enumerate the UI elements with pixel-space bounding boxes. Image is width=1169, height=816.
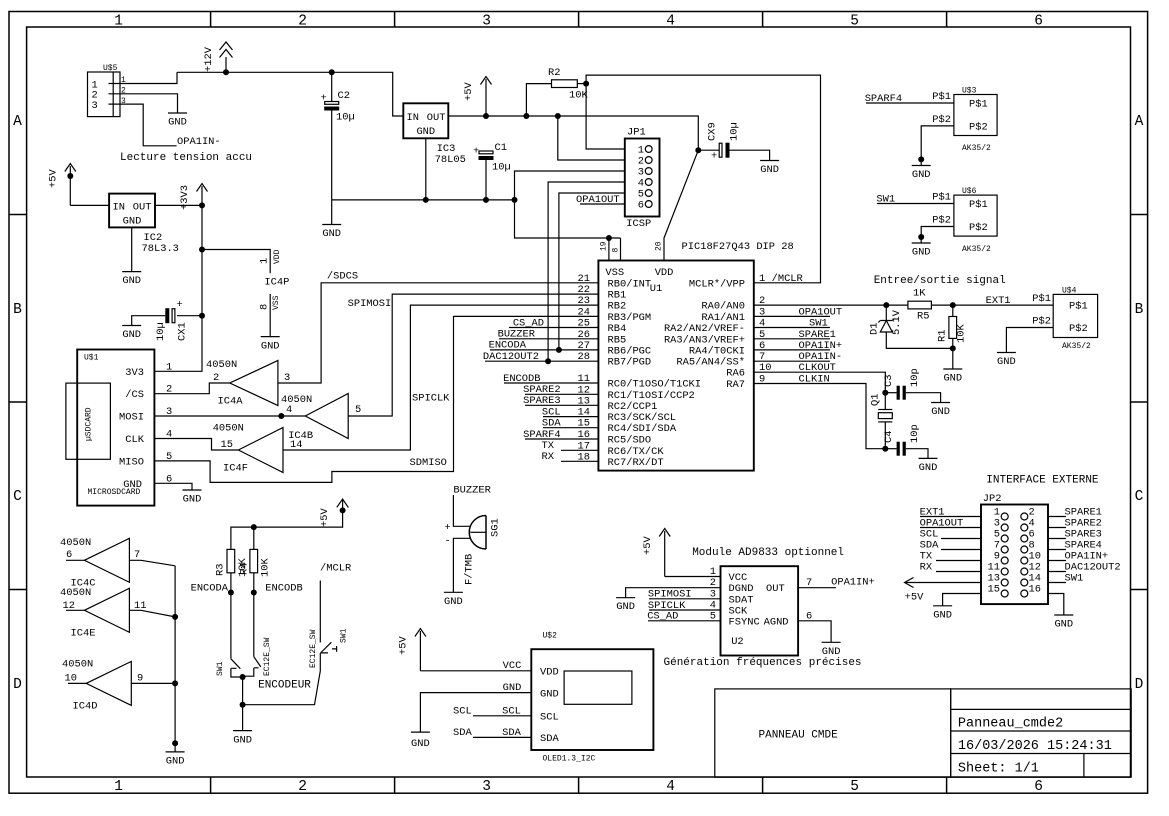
svg-text:ENCODB: ENCODB	[265, 583, 302, 595]
svg-text:Génération fréquences précises: Génération fréquences précises	[664, 657, 862, 669]
wire pin14	[543, 416, 598, 418]
svg-text:GND: GND	[503, 682, 522, 694]
wire pin16	[525, 438, 598, 440]
svg-text:R4: R4	[239, 563, 251, 575]
junction encoder common	[240, 674, 246, 680]
svg-text:+5V: +5V	[642, 536, 654, 555]
svg-text:GND: GND	[444, 596, 463, 608]
svg-text:EC12E_SW: EC12E_SW	[263, 637, 272, 676]
svg-text:1K: 1K	[913, 288, 926, 300]
wire U$5 pin2 to GND	[120, 94, 178, 113]
junction CX9 node	[695, 147, 701, 153]
svg-text:C: C	[13, 489, 22, 505]
svg-text:AK35/2: AK35/2	[962, 245, 991, 254]
svg-text:OLED1.3_I2C: OLED1.3_I2C	[543, 755, 596, 764]
wire SG1 - to ground	[453, 538, 470, 592]
ground under IC2	[122, 272, 141, 287]
svg-text:RB6/PGC: RB6/PGC	[608, 345, 652, 357]
svg-text:EC12E_SW: EC12E_SW	[309, 629, 318, 668]
svg-text:5: 5	[355, 404, 361, 416]
resistor R2	[526, 67, 588, 116]
power symbol +5V AD9833	[642, 529, 670, 577]
svg-text:IC4D: IC4D	[73, 701, 98, 713]
svg-text:R5: R5	[917, 311, 929, 323]
wire pin28	[485, 360, 598, 362]
wire pin12	[525, 393, 598, 395]
wire U$6 P$2 to ground	[921, 227, 954, 244]
junction crystal bottom	[882, 446, 888, 452]
svg-text:VDD: VDD	[655, 267, 674, 279]
wire unused inputs bus	[174, 566, 176, 752]
buzzer SG1	[445, 516, 502, 586]
svg-text:3: 3	[92, 100, 98, 112]
junction pin27 PGC	[556, 347, 562, 353]
junction +5V at R2 branch	[523, 113, 529, 119]
svg-text:SPICLK: SPICLK	[412, 393, 450, 405]
buffer IC4B	[281, 394, 361, 443]
svg-text:RC4/SDI/SDA: RC4/SDI/SDA	[608, 423, 677, 435]
wire CLKOUT pin10	[754, 372, 886, 393]
svg-text:SDA: SDA	[453, 727, 472, 739]
wire pin7	[754, 360, 830, 362]
wire BUZZER to SG1 +	[453, 495, 469, 526]
junction bus IC4E	[172, 614, 178, 620]
svg-text:OUT: OUT	[766, 583, 785, 595]
svg-text:5: 5	[166, 451, 172, 463]
svg-text:VSS: VSS	[605, 267, 624, 279]
svg-text:VCC: VCC	[729, 572, 748, 584]
wire common down	[242, 677, 244, 731]
svg-text:10µ: 10µ	[492, 162, 511, 174]
wire +12V rail	[177, 72, 403, 116]
wire JP1 pin4 down to PGD	[548, 182, 625, 361]
pin 19 VSS stub	[600, 238, 621, 261]
svg-text:SW1: SW1	[340, 628, 349, 643]
wire R4 top	[253, 527, 255, 549]
power symbol +5V above C1	[463, 77, 492, 117]
svg-text:B: B	[13, 302, 22, 318]
svg-text:10p: 10p	[909, 368, 921, 387]
wire JP2 pin2	[1048, 516, 1066, 518]
svg-text:GND: GND	[122, 329, 141, 341]
border row ticks left	[9, 215, 27, 590]
svg-text:RC2/CCP1: RC2/CCP1	[608, 401, 658, 413]
svg-text:4050N: 4050N	[62, 659, 93, 671]
svg-text:VDD: VDD	[273, 249, 282, 264]
svg-text:SDA: SDA	[540, 733, 559, 745]
junction bus lower	[172, 740, 178, 746]
svg-text:RC5/SDO: RC5/SDO	[608, 435, 652, 447]
wire +5V to U2 VCC	[665, 576, 721, 578]
border column ticks top	[211, 12, 947, 28]
border row ticks right	[1131, 215, 1148, 590]
svg-text:SCL: SCL	[453, 705, 472, 717]
wire U2 DGND to ground	[626, 588, 721, 598]
wire U$3 P$2 to ground	[921, 126, 954, 166]
svg-text:+5V: +5V	[319, 508, 331, 527]
svg-text:8: 8	[612, 248, 621, 253]
svg-text:GND: GND	[912, 247, 931, 259]
svg-text:+: +	[321, 93, 327, 105]
svg-text:INTERFACE EXTERNE: INTERFACE EXTERNE	[986, 475, 1099, 487]
svg-text:SDAT: SDAT	[729, 594, 754, 606]
wire JP1 pin6	[580, 203, 625, 205]
resistor R3	[215, 549, 251, 577]
svg-text:VSS: VSS	[272, 295, 281, 310]
buffer IC4A	[206, 359, 290, 408]
svg-text:GND: GND	[122, 275, 141, 287]
svg-text:JP2: JP2	[983, 493, 1002, 505]
wire to IC4P VDD	[202, 250, 270, 274]
switch SW1 encoder A	[216, 637, 272, 677]
buffer IC4F	[213, 423, 303, 475]
junction D1/R1 bottom	[950, 345, 956, 351]
svg-text:/MCLR: /MCLR	[772, 273, 803, 285]
comment box PANNEAU CMDE	[715, 689, 951, 777]
svg-text:VDD: VDD	[540, 667, 559, 679]
wire pin11	[504, 382, 598, 384]
pin numbers left of U1	[578, 273, 590, 464]
IC U1 PIC18F27Q43	[598, 241, 793, 471]
svg-text:MCLR*/VPP: MCLR*/VPP	[689, 278, 745, 290]
svg-text:Panneau_cmde2: Panneau_cmde2	[958, 717, 1063, 732]
ground under CX1	[122, 326, 141, 342]
svg-text:GND: GND	[912, 169, 931, 181]
ground at U2 AGND	[822, 642, 841, 658]
svg-text:AK35/2: AK35/2	[1062, 342, 1091, 351]
wire /MCLR to push button	[319, 581, 321, 643]
svg-text:GND: GND	[933, 609, 952, 621]
wire JP2 pin11	[936, 571, 981, 573]
wire SDA	[473, 736, 531, 738]
svg-text:GND: GND	[822, 646, 841, 658]
wire CLK to IC4F out	[164, 439, 239, 451]
push button SW1 /MCLR	[309, 628, 349, 668]
ground under SG1	[444, 592, 463, 608]
ground under C2 rail	[322, 200, 341, 240]
svg-text:U$1: U$1	[84, 354, 99, 363]
wire SCL	[473, 715, 531, 717]
svg-text:RA2/AN2/VREF-: RA2/AN2/VREF-	[664, 323, 745, 335]
svg-text:GND: GND	[760, 164, 779, 176]
svg-text:RX: RX	[542, 451, 555, 463]
power symbol +5V OLED	[398, 629, 426, 671]
regulator IC3 78L05	[403, 103, 466, 166]
wire U$4 P$2 to ground	[1006, 328, 1053, 353]
svg-text:VCC: VCC	[503, 660, 522, 672]
svg-text:3: 3	[482, 14, 491, 30]
svg-text:P$1: P$1	[969, 199, 988, 211]
ground under U$3	[912, 166, 931, 182]
svg-text:4: 4	[666, 779, 675, 795]
svg-text:P$1: P$1	[1069, 301, 1088, 313]
ground under U$1	[183, 490, 202, 506]
module U2 AD9833	[721, 566, 799, 655]
capacitor C1	[473, 142, 511, 200]
capacitor CX9	[698, 122, 769, 162]
svg-text:U$5: U$5	[103, 64, 118, 73]
title block	[951, 689, 1131, 777]
svg-text:RB0/INT: RB0/INT	[608, 278, 652, 290]
svg-text:P$2: P$2	[1032, 316, 1051, 328]
svg-text:ENCODA: ENCODA	[191, 583, 229, 595]
svg-text:GND: GND	[997, 356, 1016, 368]
wire pin13	[525, 404, 598, 406]
junction +3V3	[199, 202, 205, 208]
ground under U$4	[997, 353, 1016, 369]
svg-text:C: C	[1135, 489, 1144, 505]
svg-text:PANNEAU CMDE: PANNEAU CMDE	[759, 730, 839, 742]
svg-text:GND: GND	[943, 373, 962, 385]
svg-text:6: 6	[638, 200, 644, 212]
svg-text:U$3: U$3	[962, 87, 977, 96]
svg-text:EXT1: EXT1	[986, 295, 1011, 307]
wire SCK	[649, 609, 721, 611]
svg-text:P$2: P$2	[969, 222, 988, 234]
junction R2 /MCLR node	[583, 81, 589, 87]
wire U$1 GND pin6	[164, 483, 193, 490]
svg-text:10: 10	[65, 673, 77, 685]
svg-text:RC7/RX/DT: RC7/RX/DT	[608, 457, 664, 469]
wire JP2 pin12	[1048, 571, 1066, 573]
wire pin17	[561, 449, 598, 451]
svg-text:+12V: +12V	[203, 46, 215, 72]
wire pin25	[509, 327, 598, 329]
svg-text:SCL: SCL	[502, 705, 521, 717]
wire R4 bottom to switch	[253, 573, 255, 657]
svg-text:GND: GND	[123, 216, 142, 228]
svg-text:+: +	[445, 522, 451, 534]
svg-text:+: +	[177, 299, 183, 311]
svg-text:GND: GND	[183, 494, 202, 506]
wire pin15	[543, 427, 598, 429]
wire VDD pin20 diagonal	[664, 150, 698, 260]
junction +3V3 at CX1	[199, 313, 205, 319]
wire R2 node down to JP1 pin1	[586, 84, 625, 149]
svg-text:U$4: U$4	[1062, 287, 1077, 296]
svg-text:RA6: RA6	[726, 368, 745, 380]
svg-text:ENCODEUR: ENCODEUR	[258, 680, 311, 692]
wire pin18	[561, 460, 598, 462]
svg-text:AGND: AGND	[764, 616, 789, 628]
svg-text:D1: D1	[869, 323, 881, 335]
svg-text:2: 2	[213, 372, 219, 384]
svg-text:IN: IN	[113, 202, 125, 214]
svg-text:4050N: 4050N	[60, 537, 91, 549]
wire SPIMOSI pin22	[348, 294, 598, 416]
junction ENCODA	[228, 590, 234, 596]
svg-text:SG1: SG1	[490, 518, 502, 537]
svg-text:10K: 10K	[956, 324, 968, 343]
svg-text:IC4E: IC4E	[71, 628, 96, 640]
svg-text:GND: GND	[168, 117, 187, 129]
wire pin27	[490, 349, 598, 351]
svg-text:1: 1	[114, 779, 123, 795]
wire JP2 pin16 to ground	[1048, 594, 1064, 616]
svg-text:10µ: 10µ	[155, 322, 167, 341]
svg-text:P$1: P$1	[1032, 293, 1051, 305]
svg-text:GND: GND	[931, 406, 950, 418]
ground under C3	[931, 403, 950, 419]
wire IC2 GND to ground	[131, 227, 133, 271]
svg-text:CX1: CX1	[177, 322, 189, 341]
junction IC3 GND rail	[423, 197, 429, 203]
svg-text:RX: RX	[920, 562, 933, 574]
svg-text:SW1: SW1	[1065, 573, 1084, 585]
svg-text:/MCLR: /MCLR	[320, 562, 351, 574]
svg-text:5.1V: 5.1V	[891, 309, 903, 335]
svg-text:10µ: 10µ	[729, 122, 741, 141]
ground under bus	[166, 752, 185, 768]
svg-text:PIC18F27Q43 DIP 28: PIC18F27Q43 DIP 28	[682, 241, 794, 253]
wire FSYNC	[648, 620, 721, 622]
svg-text:RA0/AN0: RA0/AN0	[701, 301, 745, 313]
svg-text:GND: GND	[411, 738, 430, 750]
wire CLKIN pin9	[754, 384, 886, 449]
wire +5V to IC2 IN	[70, 204, 109, 206]
svg-text:RB2: RB2	[608, 301, 627, 313]
svg-text:B: B	[1135, 302, 1144, 318]
wire IC3 OUT +5V rail	[448, 116, 698, 150]
svg-text:IC4P: IC4P	[264, 277, 289, 289]
svg-text:1: 1	[710, 566, 716, 578]
buffer IC4D	[62, 659, 175, 713]
svg-text:ICSP: ICSP	[626, 218, 651, 230]
buffer IC4P power pins	[259, 249, 290, 336]
junction bus IC4D	[172, 680, 178, 686]
svg-text:+5V: +5V	[905, 592, 924, 604]
buffer IC4C	[60, 537, 175, 590]
power symbol +5V at IC2	[48, 164, 76, 206]
svg-text:P$2: P$2	[1069, 323, 1088, 335]
svg-text:R1: R1	[936, 330, 948, 342]
junction encoder gnd node	[240, 702, 246, 708]
svg-text:P$2: P$2	[932, 214, 951, 226]
wire R1 to ground	[952, 348, 954, 369]
capacitor C3	[883, 368, 941, 402]
svg-text:P$2: P$2	[932, 114, 951, 126]
wire JP2 pin1	[920, 516, 981, 518]
svg-text:14: 14	[290, 439, 302, 451]
svg-text:D: D	[1135, 677, 1144, 693]
svg-text:U2: U2	[731, 636, 743, 648]
wire JP2 pin10	[1048, 560, 1066, 562]
svg-text:1: 1	[114, 14, 123, 30]
svg-text:RB7/PGD: RB7/PGD	[608, 357, 652, 369]
ground at JP2 pin16	[1054, 615, 1073, 631]
svg-text:4050N: 4050N	[206, 359, 237, 371]
svg-text:JP1: JP1	[627, 127, 646, 139]
svg-text:P$1: P$1	[969, 99, 988, 111]
svg-text:19: 19	[600, 241, 609, 251]
capacitor C2	[321, 72, 355, 200]
resistor R5	[908, 288, 932, 323]
svg-text:5: 5	[850, 14, 859, 30]
svg-text:C3: C3	[883, 375, 895, 387]
junction +5V at JP1 pin2 branch	[555, 113, 561, 119]
svg-text:R3: R3	[215, 564, 227, 576]
wire JP1 pin3 to VSS	[515, 171, 625, 238]
wire IC3 GND to rail	[425, 138, 427, 200]
crystal Q1	[870, 393, 893, 449]
resistor R1	[936, 305, 967, 348]
pin numbers U2	[710, 566, 813, 622]
svg-text:/CS: /CS	[125, 389, 144, 401]
svg-text:AK35/2: AK35/2	[962, 144, 991, 153]
wire JP2 pin5	[941, 538, 981, 540]
svg-text:µSDCARD: µSDCARD	[85, 407, 94, 441]
svg-text:9: 9	[137, 673, 143, 685]
svg-text:CLKIN: CLKIN	[799, 374, 830, 386]
svg-text:4: 4	[666, 14, 675, 30]
junction C1 at rail	[483, 197, 489, 203]
svg-text:P$1: P$1	[932, 91, 951, 103]
buffer IC4E	[60, 587, 175, 640]
power symbol +5V encoder	[319, 499, 348, 528]
svg-text:10K: 10K	[260, 558, 272, 577]
switch encoder B	[243, 657, 261, 677]
svg-text:SDA: SDA	[502, 727, 521, 739]
junction +3V3 at IC4P branch	[199, 247, 205, 253]
wire pin26	[499, 338, 598, 340]
svg-text:C4: C4	[883, 431, 895, 443]
ground at JP2 pin15	[933, 606, 952, 622]
pin numbers right of U1	[759, 273, 771, 386]
svg-text:+3V3: +3V3	[179, 185, 191, 210]
svg-text:Lecture tension accu: Lecture tension accu	[120, 152, 252, 164]
svg-text:Sheet: 1/1: Sheet: 1/1	[958, 762, 1039, 777]
svg-text:IC4A: IC4A	[218, 396, 244, 408]
svg-text:MISO: MISO	[119, 456, 144, 468]
svg-text:GND: GND	[919, 462, 938, 474]
capacitor C4	[883, 424, 928, 458]
wire JP2 pin8	[1048, 549, 1066, 551]
svg-text:GND: GND	[322, 228, 341, 240]
svg-text:RA4/T0CKI: RA4/T0CKI	[689, 345, 745, 357]
svg-text:U$2: U$2	[543, 632, 558, 641]
ground under U$5	[168, 113, 187, 129]
zener diode D1 5.1V	[869, 305, 953, 348]
svg-text:OPA1IN+: OPA1IN+	[831, 577, 875, 589]
svg-text:SCL: SCL	[540, 712, 559, 724]
wire pin2 RA0 to EXT1	[754, 304, 1053, 306]
display U$2 OLED	[531, 632, 653, 764]
connector JP1 ICSP	[625, 127, 660, 231]
svg-text:15: 15	[221, 439, 233, 451]
power symbol +12V	[203, 42, 233, 72]
junction VSS node	[606, 235, 612, 241]
svg-text:+5V: +5V	[48, 169, 60, 188]
connector U$4	[1032, 287, 1097, 352]
svg-text:20: 20	[655, 241, 664, 251]
wire JP2 pin3	[920, 527, 981, 529]
svg-text:SDMISO: SDMISO	[410, 457, 447, 469]
svg-text:4: 4	[286, 404, 292, 416]
svg-text:SW1: SW1	[216, 661, 225, 676]
wire MOSI to IC4B out	[164, 415, 306, 417]
svg-text:GND: GND	[416, 126, 435, 138]
svg-text:3: 3	[482, 779, 491, 795]
svg-text:GND: GND	[616, 601, 635, 613]
wire JP2 pin6	[1048, 538, 1066, 540]
svg-text:+: +	[711, 151, 717, 163]
junction rail to JP1 pin3 vertical	[512, 197, 518, 203]
svg-text:CLKOUT: CLKOUT	[799, 362, 836, 374]
wire +3V3 vertical bus	[164, 205, 203, 371]
svg-text:+: +	[473, 146, 479, 158]
svg-text:Entree/sortie signal: Entree/sortie signal	[874, 275, 1006, 287]
svg-text:GND: GND	[261, 341, 280, 353]
